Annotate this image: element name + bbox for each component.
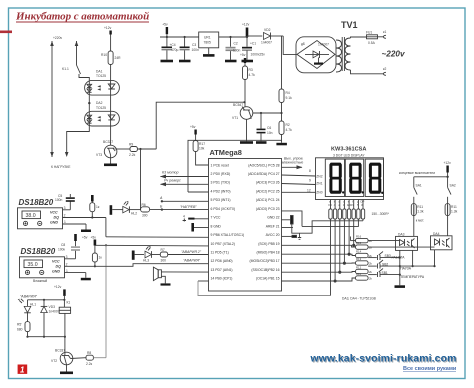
svg-text:11 PD5 (T1): 11 PD5 (T1) xyxy=(211,251,229,255)
svg-text:ZN0: ZN0 xyxy=(316,191,322,195)
svg-text:"АВАРИЯ 2": "АВАРИЯ 2" xyxy=(181,250,202,254)
svg-text:12 PD6 (AIN0): 12 PD6 (AIN0) xyxy=(211,259,233,263)
svg-text:DA3: DA3 xyxy=(398,232,405,236)
svg-text:13 PD7 (AIN1): 13 PD7 (AIN1) xyxy=(211,268,233,272)
svg-text:4: 4 xyxy=(183,215,185,219)
svg-text:(SS/OC1B)PB2 16: (SS/OC1B)PB2 16 xyxy=(251,268,279,272)
svg-text:C6: C6 xyxy=(267,126,271,130)
svg-text:0.5A: 0.5A xyxy=(368,41,376,45)
svg-text:(АОС5/SCL) PC5 28: (АОС5/SCL) PC5 28 xyxy=(248,163,279,167)
svg-text:РАБОТА: РАБОТА xyxy=(392,256,406,260)
svg-text:R12: R12 xyxy=(356,266,362,270)
svg-text:+5v: +5v xyxy=(82,236,88,240)
svg-text:R11: R11 xyxy=(417,205,423,209)
svg-text:VD3: VD3 xyxy=(49,305,56,309)
svg-text:+5v: +5v xyxy=(240,53,246,57)
svg-text:7 VCC: 7 VCC xyxy=(211,216,222,220)
svg-text:10k: 10k xyxy=(199,147,205,151)
svg-text:HL3: HL3 xyxy=(143,259,149,263)
svg-text:2.2к: 2.2к xyxy=(86,362,93,366)
svg-text:SA2: SA2 xyxy=(450,184,456,188)
svg-text:R14: R14 xyxy=(356,250,362,254)
svg-text:DA1: DA1 xyxy=(96,70,103,74)
svg-text:TO125: TO125 xyxy=(96,106,106,110)
svg-text:+220v: +220v xyxy=(53,36,62,40)
svg-text:4.7k: 4.7k xyxy=(249,73,256,77)
svg-text:300: 300 xyxy=(142,213,148,217)
svg-text:к2: к2 xyxy=(383,67,386,71)
svg-text:SB1: SB1 xyxy=(382,271,388,275)
svg-text:BC337: BC337 xyxy=(55,349,65,353)
svg-text:1к: 1к xyxy=(99,256,103,260)
svg-text:1 PCE reset: 1 PCE reset xyxy=(211,163,229,167)
svg-text:+5v: +5v xyxy=(162,23,168,27)
svg-text:10 PB7 (XTAL2): 10 PB7 (XTAL2) xyxy=(211,242,235,246)
svg-text:R9: R9 xyxy=(129,143,133,147)
svg-text:R8: R8 xyxy=(87,351,91,355)
svg-text:38.0: 38.0 xyxy=(26,213,36,219)
svg-text:6 PD4 (XCK/T0): 6 PD4 (XCK/T0) xyxy=(211,207,236,211)
svg-text:100n: 100n xyxy=(55,198,63,202)
svg-text:Инкубатор с автоматикой: Инкубатор с автоматикой xyxy=(15,11,149,23)
svg-text:DS18B20: DS18B20 xyxy=(19,198,54,207)
svg-text:R13: R13 xyxy=(356,257,362,261)
svg-text:VT1: VT1 xyxy=(232,116,238,120)
svg-text:"АВАРИЯ": "АВАРИЯ" xyxy=(20,294,38,298)
svg-text:24R: 24R xyxy=(115,56,122,60)
svg-text:(OC1A) PB1 15: (OC1A) PB1 15 xyxy=(256,277,280,281)
svg-text:Влажный: Влажный xyxy=(33,279,47,283)
svg-text:R16: R16 xyxy=(356,235,362,239)
svg-text:TV1: TV1 xyxy=(341,20,358,30)
svg-text:35.0: 35.0 xyxy=(28,262,38,268)
svg-text:к мот.: к мот. xyxy=(416,219,425,223)
svg-text:4.7k: 4.7k xyxy=(286,128,293,132)
svg-text:HL1: HL1 xyxy=(30,303,36,307)
svg-text:(SCK) PB5 19: (SCK) PB5 19 xyxy=(258,242,279,246)
svg-text:ZN2: ZN2 xyxy=(316,175,322,179)
svg-text:+12v: +12v xyxy=(54,285,62,289)
svg-text:ATMega8: ATMega8 xyxy=(210,148,242,157)
svg-text:10n: 10n xyxy=(267,131,273,135)
svg-text:R11: R11 xyxy=(451,205,457,209)
svg-text:1n4007: 1n4007 xyxy=(261,41,272,45)
svg-text:1: 1 xyxy=(20,366,25,375)
svg-text:~220v: ~220v xyxy=(382,50,405,59)
svg-text:1.3k: 1.3k xyxy=(451,210,458,214)
svg-text:HL2: HL2 xyxy=(131,212,137,216)
svg-text:к1: к1 xyxy=(383,30,386,34)
svg-text:470µ: 470µ xyxy=(171,48,179,52)
svg-text:К1: К1 xyxy=(67,301,71,305)
svg-text:DQ: DQ xyxy=(54,215,60,219)
svg-text:R15: R15 xyxy=(356,241,362,245)
svg-text:C8: C8 xyxy=(61,243,65,247)
svg-text:концевые выключатели: концевые выключатели xyxy=(399,171,435,175)
svg-text:BC337: BC337 xyxy=(103,140,113,144)
svg-text:1.3k: 1.3k xyxy=(417,210,424,214)
svg-text:100к: 100к xyxy=(58,248,66,252)
svg-text:AVCC 20: AVCC 20 xyxy=(266,233,280,237)
svg-text:(MISO) PB4 18: (MISO) PB4 18 xyxy=(257,251,280,255)
svg-text:SB2: SB2 xyxy=(382,262,388,266)
svg-text:R5': R5' xyxy=(17,323,22,327)
svg-text:А: А xyxy=(159,196,163,200)
svg-text:C2: C2 xyxy=(234,42,238,46)
svg-text:4 PD2 (INT0): 4 PD2 (INT0) xyxy=(211,190,231,194)
svg-text:ZN1: ZN1 xyxy=(316,181,322,185)
svg-text:GND: GND xyxy=(52,270,60,274)
svg-text:R3: R3 xyxy=(249,68,253,72)
svg-text:2.2k: 2.2k xyxy=(129,153,136,157)
svg-text:R6: R6 xyxy=(142,203,146,207)
svg-text:1000x25v: 1000x25v xyxy=(251,53,266,57)
svg-text:+12v: +12v xyxy=(104,26,112,30)
svg-text:150...300R*: 150...300R* xyxy=(372,212,390,216)
svg-text:1n4007: 1n4007 xyxy=(49,310,60,314)
svg-text:14 PB0 (ICP1): 14 PB0 (ICP1) xyxy=(211,277,233,281)
svg-text:VT3: VT3 xyxy=(96,153,102,157)
svg-text:www.kak-svoimi-rukami.com: www.kak-svoimi-rukami.com xyxy=(310,354,457,365)
svg-text:R2: R2 xyxy=(286,123,290,127)
svg-text:5 PD3 (INT1): 5 PD3 (INT1) xyxy=(211,198,231,202)
svg-text:3 DGT LED DISPLAY: 3 DGT LED DISPLAY xyxy=(333,154,365,158)
svg-text:AREF 21: AREF 21 xyxy=(266,224,280,228)
svg-text:100n: 100n xyxy=(192,48,200,52)
svg-text:GND: GND xyxy=(50,221,58,225)
svg-text:+5v: +5v xyxy=(190,125,196,129)
svg-text:C3: C3 xyxy=(192,43,196,47)
svg-text:1к: 1к xyxy=(96,205,100,209)
svg-text:7805: 7805 xyxy=(204,41,212,45)
svg-text:GND 22: GND 22 xyxy=(267,216,279,220)
svg-text:R11: R11 xyxy=(356,272,361,276)
svg-text:(MOSI/OC2)PB3 17: (MOSI/OC2)PB3 17 xyxy=(250,259,280,263)
svg-text:+12v: +12v xyxy=(444,161,452,165)
svg-text:ТЕМПЕРАТУРА: ТЕМПЕРАТУРА xyxy=(400,275,425,279)
svg-text:9: 9 xyxy=(309,179,311,183)
svg-text:(ADC2) PC2 25: (ADC2) PC2 25 xyxy=(256,190,280,194)
svg-text:R4: R4 xyxy=(286,91,290,95)
svg-text:+C4: +C4 xyxy=(170,43,176,47)
svg-text:9 PB6 XTAL1/TOSC1): 9 PB6 XTAL1/TOSC1) xyxy=(211,233,245,237)
svg-text:K1.1: K1.1 xyxy=(62,67,69,71)
svg-text:(ADC1) PC1 24: (ADC1) PC1 24 xyxy=(256,198,280,202)
svg-text:VD2: VD2 xyxy=(264,28,271,32)
svg-text:дБ: дБ xyxy=(301,42,305,46)
svg-text:2 PD0 (RXD): 2 PD0 (RXD) xyxy=(211,172,231,176)
svg-text:DA4: DA4 xyxy=(433,232,440,236)
svg-text:DS18B20: DS18B20 xyxy=(21,247,56,256)
svg-text:UR1: UR1 xyxy=(204,36,211,40)
svg-text:VCC: VCC xyxy=(52,259,60,263)
svg-text:R10: R10 xyxy=(101,53,107,57)
svg-text:+5v: +5v xyxy=(91,236,97,240)
svg-text:100n: 100n xyxy=(233,48,241,52)
svg-text:+C1: +C1 xyxy=(250,42,256,46)
svg-text:680: 680 xyxy=(17,328,23,332)
svg-text:R17: R17 xyxy=(199,142,205,146)
svg-text:BC547: BC547 xyxy=(233,103,243,107)
svg-text:+12v: +12v xyxy=(242,23,250,27)
svg-text:3 PD1 (TXD): 3 PD1 (TXD) xyxy=(211,181,230,185)
svg-text:VT2: VT2 xyxy=(51,359,57,363)
svg-text:R7: R7 xyxy=(161,248,165,252)
svg-text:(ADC3) PC3 26: (ADC3) PC3 26 xyxy=(256,181,280,185)
svg-text:FU1: FU1 xyxy=(366,31,372,35)
svg-text:(ADC0) PC0 23: (ADC0) PC0 23 xyxy=(256,207,280,211)
svg-text:К НАГРУЗКЕ: К НАГРУЗКЕ xyxy=(51,165,71,169)
svg-text:KW3-361CSA: KW3-361CSA xyxy=(331,147,366,153)
svg-text:ПАУЗА: ПАУЗА xyxy=(400,267,411,271)
svg-text:"АВАРИЯ": "АВАРИЯ" xyxy=(183,259,201,263)
svg-text:Рч реверс: Рч реверс xyxy=(164,179,181,183)
svg-text:DQ: DQ xyxy=(56,264,62,268)
svg-text:DA2: DA2 xyxy=(96,101,103,105)
svg-text:SB3: SB3 xyxy=(385,254,391,258)
svg-text:8 GND: 8 GND xyxy=(211,224,222,228)
svg-text:TO125: TO125 xyxy=(96,74,106,78)
svg-text:(ADC4/SDA) PC4 27: (ADC4/SDA) PC4 27 xyxy=(248,172,280,176)
svg-text:VCC: VCC xyxy=(50,210,58,214)
svg-text:9.1k: 9.1k xyxy=(286,96,293,100)
svg-text:SA1: SA1 xyxy=(416,184,422,188)
svg-text:300: 300 xyxy=(161,259,167,263)
svg-text:1n4007: 1n4007 xyxy=(318,43,329,47)
svg-text:8: 8 xyxy=(309,169,311,173)
svg-text:влажностью: влажностью xyxy=(282,161,304,165)
svg-text:DA3, DA4 - TLP521GB: DA3, DA4 - TLP521GB xyxy=(342,297,377,301)
svg-text:К3 мотор: К3 мотор xyxy=(162,171,179,175)
svg-text:"НАГРЕВ": "НАГРЕВ" xyxy=(180,205,197,209)
